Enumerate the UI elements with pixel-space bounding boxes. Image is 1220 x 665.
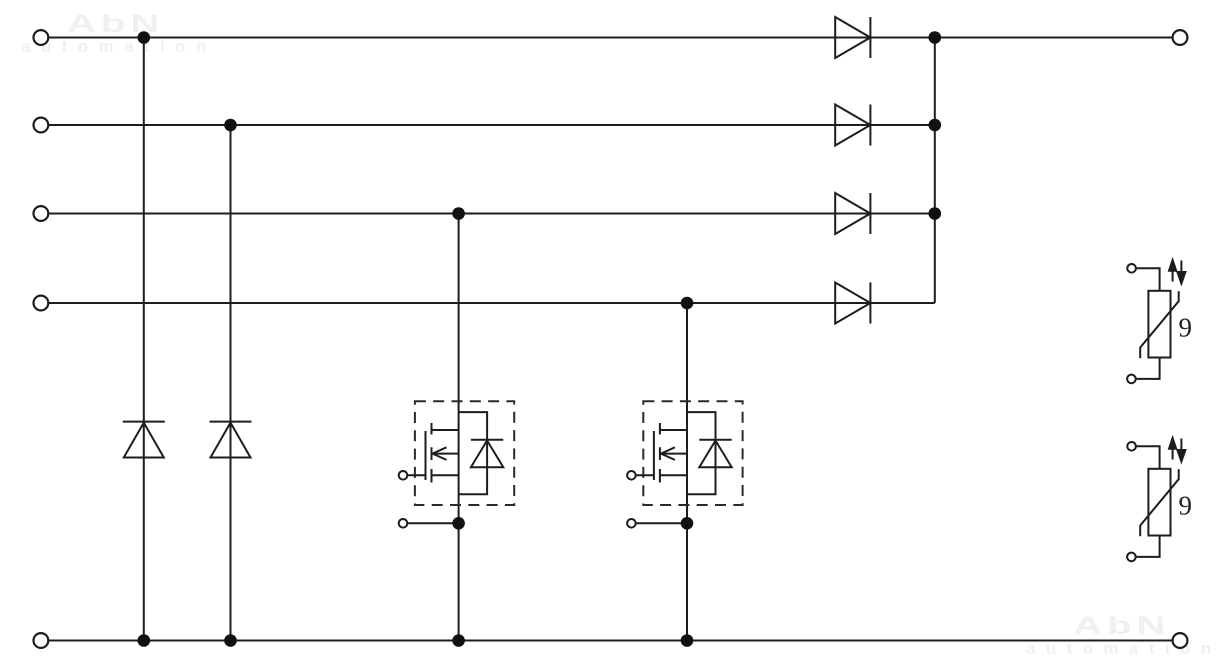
svg-text:9: 9 [1179, 312, 1193, 342]
svg-text:9: 9 [1179, 490, 1193, 520]
